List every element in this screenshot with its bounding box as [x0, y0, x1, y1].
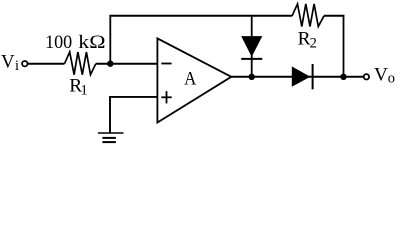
wire top feedback horizontal to R2	[109, 15, 292, 17]
wire R1 to op-amp inverting input	[96, 63, 158, 65]
wire op-amp output to Vo terminal	[231, 76, 363, 78]
svg-text:kΩ: kΩ	[78, 32, 105, 53]
pin plus (non-inverting input marker)	[161, 96, 171, 98]
svg-text:i: i	[15, 58, 19, 74]
diode D2 (series output diode, anode left, cathode bar right)	[292, 66, 311, 86]
svg-text:100: 100	[45, 32, 72, 53]
wire input to R1	[28, 63, 65, 65]
svg-text:V: V	[374, 64, 388, 85]
wire right vertical down to output node	[343, 16, 345, 77]
svg-text:V: V	[1, 51, 15, 72]
node output junction (op-amp output)	[249, 74, 255, 80]
svg-text:1: 1	[81, 82, 88, 98]
output terminal circle	[364, 74, 369, 79]
wire R2 to right corner	[324, 15, 344, 17]
resistor R1	[65, 52, 96, 75]
svg-text:o: o	[388, 70, 395, 86]
svg-text:A: A	[184, 69, 196, 90]
wire feedback vertical from node up	[109, 16, 111, 64]
node junction R1/R2/inverting input	[107, 61, 113, 67]
ground (earth symbol, 3 bars)	[98, 132, 124, 134]
input terminal circle	[22, 61, 27, 66]
resistor R2	[292, 4, 324, 27]
wire non-inverting input to ground	[110, 97, 157, 133]
pin minus (inverting input marker)	[161, 63, 171, 65]
wire diode D1 branch vertical	[251, 16, 253, 77]
diode D1 (vertical clamp diode, anode top, cathode bar bottom)	[241, 36, 262, 57]
svg-text:2: 2	[310, 35, 317, 51]
node junction at Vo / R2 bottom	[340, 74, 346, 80]
op-amp A (triangle body)	[157, 38, 231, 122]
